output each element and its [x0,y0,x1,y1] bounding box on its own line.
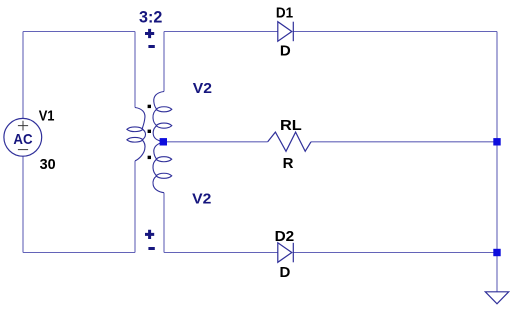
junction: right D2 square [493,249,500,256]
svg-text:3:2: 3:2 [139,8,162,26]
wire: left loop top horizontal [23,31,135,33]
wire: D1 to right vertical [293,31,497,33]
diode D2 triangle [278,243,292,262]
svg-text:RL: RL [280,117,302,134]
wire: left vertical lower [22,156,24,253]
AC source minus sign [18,149,28,151]
transformer minus bottom [148,247,154,250]
wire: D2 to right vertical [293,252,497,254]
svg-text:V2: V2 [192,190,211,207]
diode D2 bar [292,243,294,262]
svg-text:D: D [280,42,291,59]
AC source plus sign [18,121,28,131]
wire: RL to right vertical [311,141,497,143]
diode D1 triangle [278,22,292,42]
svg-text:30: 30 [40,156,56,173]
svg-text:V1: V1 [39,108,55,125]
phasing dot middle [148,130,151,133]
ground [485,292,508,304]
transformer plus top [145,29,154,38]
junction: center tap square [160,138,167,145]
AC source V1 circle [4,118,42,156]
wire: primary vertical upper [134,32,136,108]
svg-text:D1: D1 [276,4,293,21]
transformer minus top [148,45,154,48]
wire: secondary bottom vertical [163,193,165,253]
phasing dot top [148,105,151,108]
phasing dot bottom [148,156,151,159]
transformer secondary top coil [153,92,172,142]
transformer secondary bottom coil [153,143,172,193]
svg-text:AC: AC [13,131,32,148]
junction: right RL square [493,138,500,145]
wire: right vertical [496,32,498,292]
wire: left loop bottom horizontal [23,252,135,254]
wire: top horizontal to D1 [164,31,278,33]
wire: center tap to RL [163,141,267,143]
wire: primary vertical lower [134,161,136,253]
transformer plus bottom [145,230,154,239]
diode D1 bar [292,22,294,42]
wire: bottom horizontal to D2 [164,252,278,254]
resistor RL zigzag [268,132,311,151]
svg-text:R: R [283,155,294,172]
svg-text:V2: V2 [193,80,212,97]
wire: secondary top vertical [163,32,165,92]
svg-text:D: D [280,264,291,281]
wire: left vertical upper [22,32,24,119]
svg-text:D2: D2 [275,228,295,245]
transformer primary coil [127,108,146,161]
